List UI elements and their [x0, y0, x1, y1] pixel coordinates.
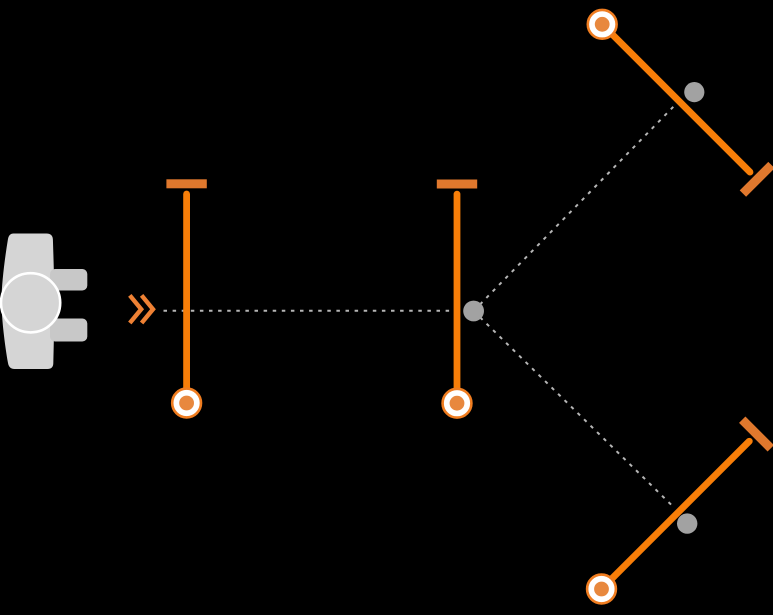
laser bottom knob [50, 319, 87, 342]
pin P2: middle vertical element [437, 180, 477, 418]
beam chevron 1 [130, 295, 141, 323]
beam chevron 2 [142, 295, 153, 323]
laser top knob [50, 269, 87, 291]
node: upper mirror grey dot [684, 82, 704, 102]
pin M1: upper-right tilted mirror [578, 0, 773, 197]
wire: dashed diagonal beam to upper mirror [474, 104, 677, 312]
wire: dashed horizontal beam path [164, 310, 464, 312]
laser body [2, 234, 55, 370]
node: beam splitter grey dot [463, 301, 484, 322]
pin P1: left vertical element [166, 179, 206, 417]
pin M2: lower-right tilted mirror [577, 417, 773, 614]
wire: dashed diagonal beam to lower mirror [474, 311, 674, 507]
node: lower mirror grey dot [677, 513, 697, 533]
laser lens circle [1, 273, 60, 332]
